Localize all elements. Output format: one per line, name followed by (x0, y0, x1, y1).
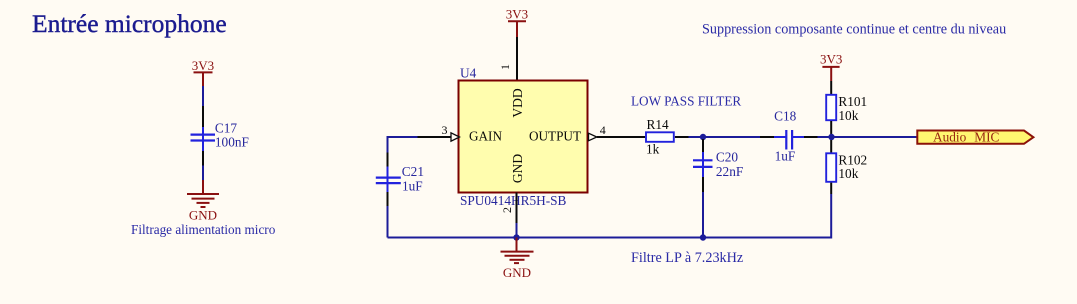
svg-text:1: 1 (498, 64, 512, 70)
svg-text:C21: C21 (402, 164, 424, 179)
svg-text:C20: C20 (716, 149, 739, 164)
svg-text:3: 3 (442, 123, 448, 137)
svg-text:VDD: VDD (510, 88, 525, 117)
svg-text:GND: GND (189, 208, 217, 223)
svg-text:3V3: 3V3 (506, 7, 528, 22)
svg-text:U4: U4 (460, 66, 477, 81)
svg-text:Entrée microphone: Entrée microphone (32, 9, 227, 38)
svg-text:SPU0414HR5H-SB: SPU0414HR5H-SB (460, 193, 567, 208)
svg-text:R101: R101 (838, 94, 867, 109)
svg-text:C18: C18 (774, 109, 797, 124)
svg-text:Suppression composante continu: Suppression composante continue et centr… (702, 22, 1006, 38)
svg-text:Filtrage alimentation micro: Filtrage alimentation micro (131, 222, 276, 237)
svg-text:1k: 1k (646, 142, 660, 157)
svg-text:OUTPUT: OUTPUT (529, 129, 581, 144)
svg-text:1uF: 1uF (402, 179, 423, 194)
svg-text:LOW PASS FILTER: LOW PASS FILTER (631, 94, 741, 109)
svg-text:2: 2 (500, 207, 514, 213)
svg-text:GND: GND (503, 265, 531, 280)
svg-text:C17: C17 (215, 120, 238, 135)
svg-text:100nF: 100nF (215, 135, 249, 150)
svg-text:22nF: 22nF (716, 164, 743, 179)
svg-text:R14: R14 (647, 117, 670, 132)
svg-text:4: 4 (600, 123, 606, 137)
svg-text:1uF: 1uF (775, 148, 796, 163)
svg-text:10k: 10k (838, 108, 858, 123)
svg-text:10k: 10k (838, 166, 858, 181)
svg-text:Filtre LP à 7.23kHz: Filtre LP à 7.23kHz (631, 250, 743, 266)
svg-text:3V3: 3V3 (192, 58, 214, 73)
svg-text:3V3: 3V3 (820, 51, 842, 66)
svg-text:GAIN: GAIN (469, 129, 502, 144)
svg-text:GND: GND (510, 154, 525, 183)
